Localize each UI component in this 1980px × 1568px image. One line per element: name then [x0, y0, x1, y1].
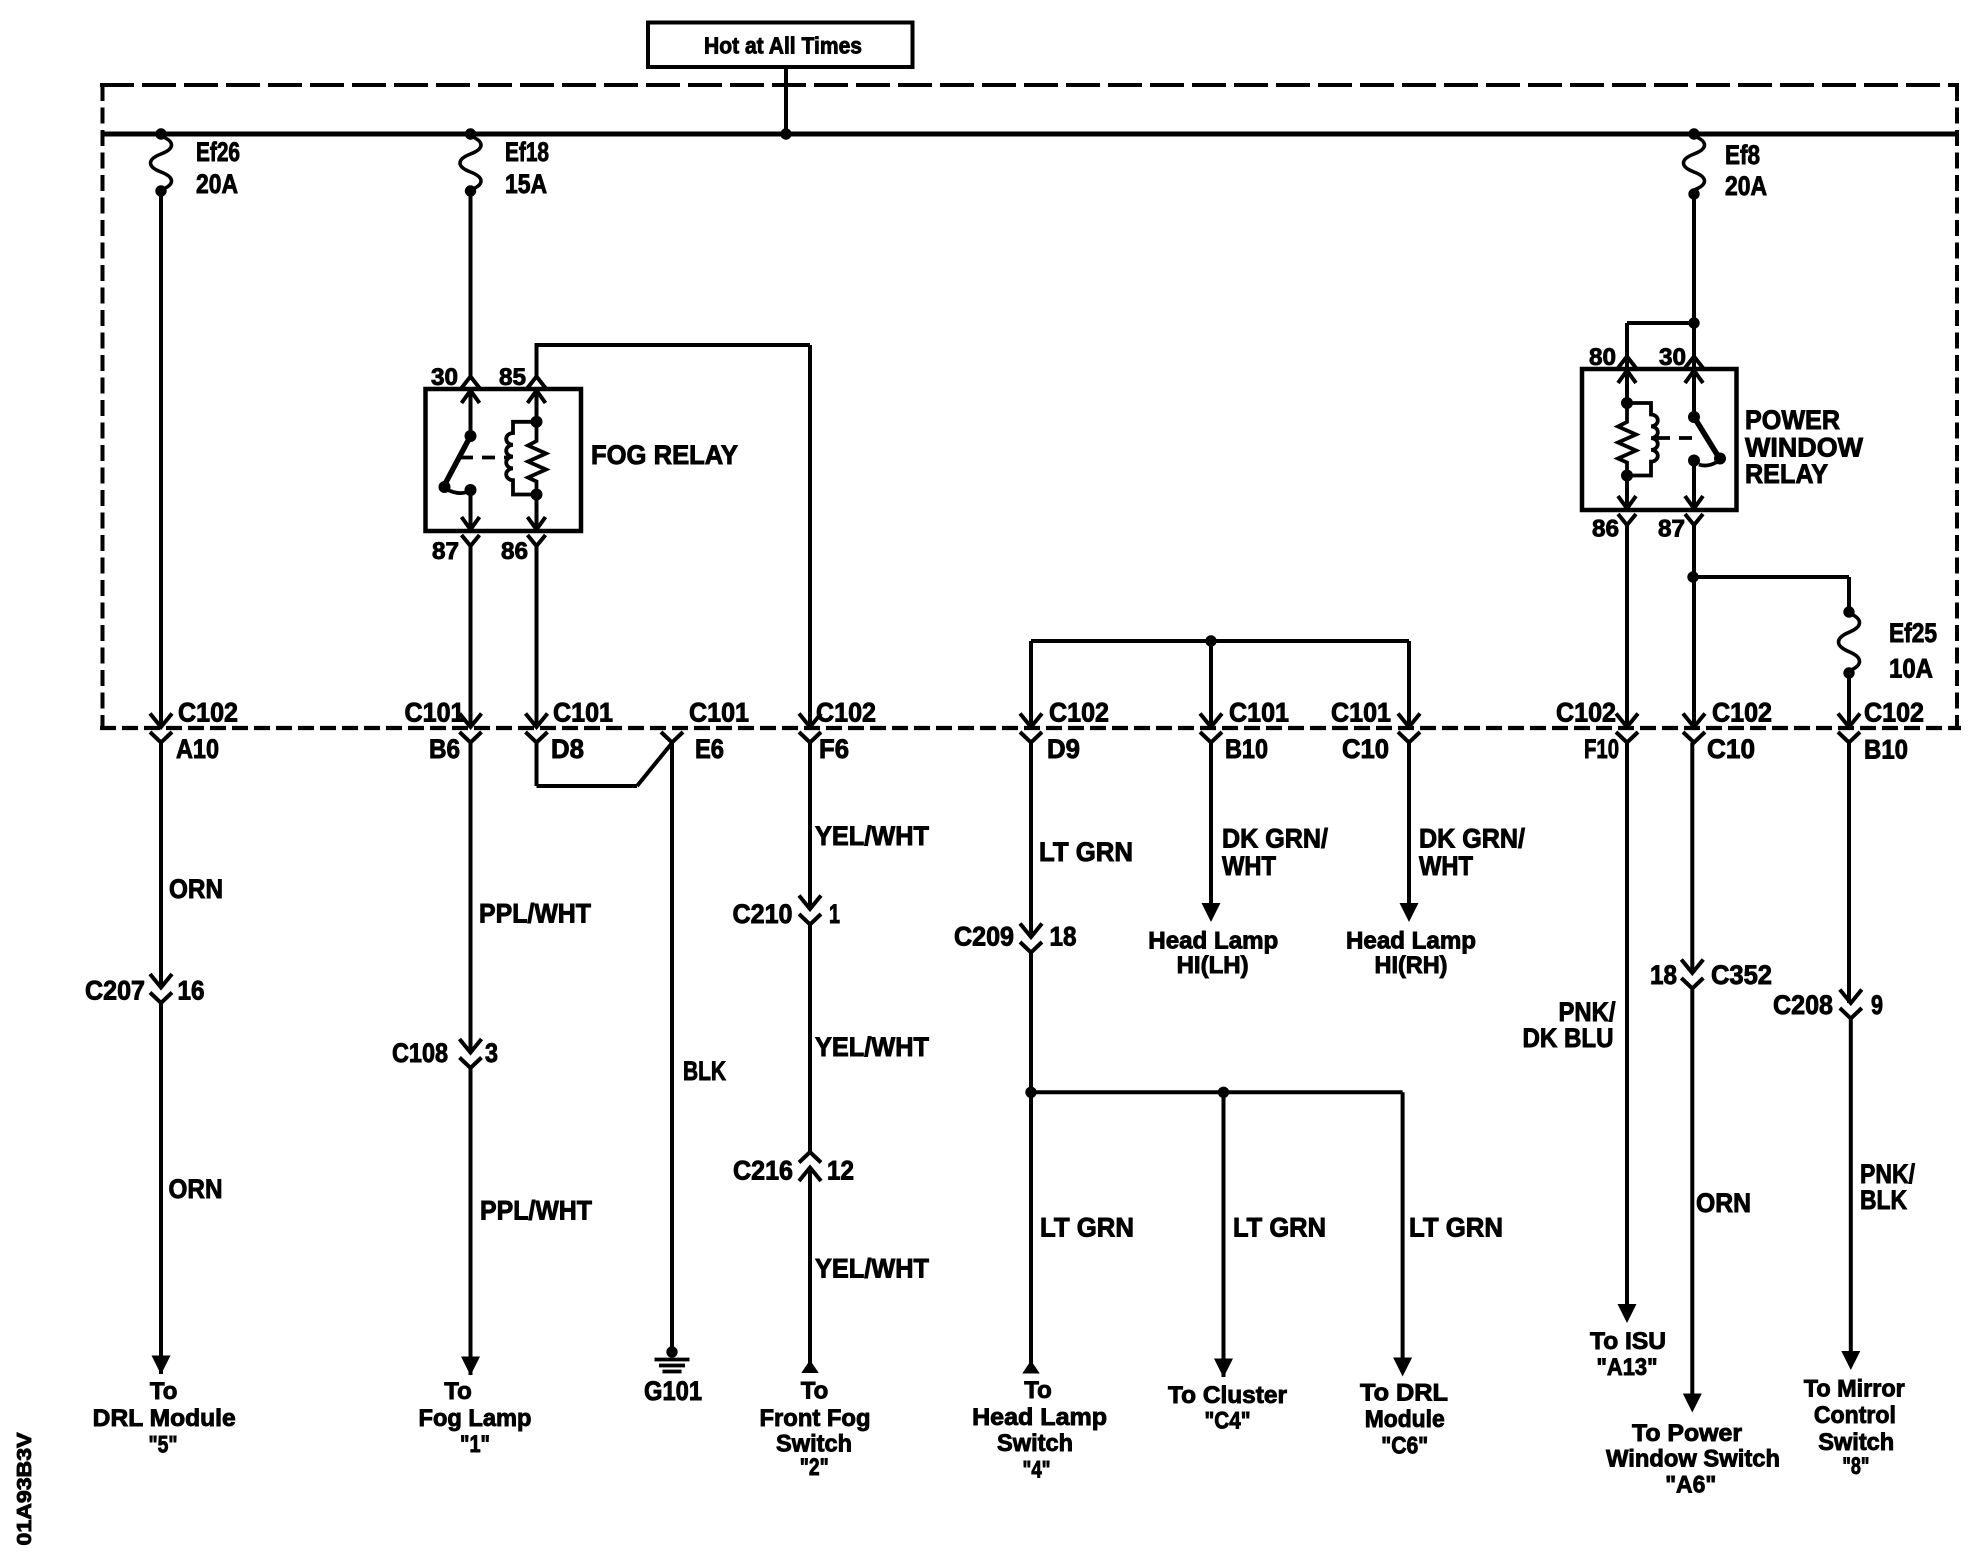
wire: YEL/WHT C216 to front fog switch	[810, 1167, 929, 1372]
svg-text:16: 16	[178, 976, 205, 1006]
fuse Ef26 20A	[151, 136, 241, 199]
svg-text:86: 86	[501, 538, 528, 565]
svg-text:Head Lamp: Head Lamp	[972, 1404, 1107, 1431]
svg-text:9: 9	[1871, 990, 1883, 1020]
wire: branch over to Ef25	[1693, 577, 1849, 611]
fog relay pin 85	[499, 364, 546, 403]
wire: DK GRN/WHT C10 to head lamp HI RH	[1409, 743, 1526, 905]
connector C101 pin B6	[405, 698, 482, 765]
arrow: to Cluster	[1214, 1359, 1233, 1378]
wire: PNK/BLK C208 to mirror control switch	[1849, 1019, 1853, 1353]
svg-text:30: 30	[431, 364, 458, 391]
svg-text:WINDOW: WINDOW	[1745, 433, 1863, 463]
svg-text:C101: C101	[1331, 698, 1391, 728]
wire: ORN from C207 to DRL module	[161, 1003, 223, 1374]
node: junction LT GRN at head lamp switch wire	[1025, 1087, 1036, 1098]
label: To Power Window Switch "A6"	[1606, 1420, 1780, 1499]
svg-text:12: 12	[827, 1156, 854, 1186]
svg-text:80: 80	[1589, 344, 1616, 371]
wire: Hot at All Times feed down to battery bus	[784, 67, 788, 134]
wire: branch over to pin 80	[1627, 323, 1694, 377]
svg-text:30: 30	[1659, 344, 1686, 371]
svg-text:DK GRN/: DK GRN/	[1222, 824, 1329, 854]
connector C102 pin D9	[1020, 698, 1109, 765]
label: To DRL Module "C6"	[1360, 1380, 1448, 1460]
svg-text:C101: C101	[689, 698, 749, 728]
svg-text:B10: B10	[1225, 734, 1268, 764]
underhood fuse block boundary (dashed box)	[100, 85, 1959, 728]
svg-text:To: To	[444, 1378, 472, 1405]
arrow: to Head Lamp HI (RH)	[1400, 903, 1419, 922]
node: junction Ef25 branch	[1687, 571, 1698, 582]
svg-text:Control: Control	[1814, 1402, 1896, 1429]
svg-text:YEL/WHT: YEL/WHT	[815, 1254, 929, 1284]
connector C102 pin F6	[799, 698, 876, 765]
svg-text:01A93B3V: 01A93B3V	[13, 1432, 36, 1545]
connector C208 pin 9	[1773, 990, 1883, 1021]
svg-text:D8: D8	[551, 734, 584, 764]
svg-text:C101: C101	[553, 698, 613, 728]
svg-text:"A6": "A6"	[1665, 1472, 1716, 1499]
svg-text:C208: C208	[1773, 990, 1833, 1020]
svg-text:C352: C352	[1711, 960, 1772, 990]
wire: relay 87 down to connector C102 C10	[1692, 525, 1696, 727]
svg-text:E6: E6	[695, 734, 724, 764]
wire: PNK/BLK B10 to C208	[1849, 743, 1916, 1216]
svg-text:Head Lamp: Head Lamp	[1148, 928, 1278, 955]
fog relay coil (85-86)	[506, 391, 546, 530]
connector C210 pin 1	[733, 896, 841, 930]
wire: relay 86 down to connector C102 F10	[1625, 525, 1629, 727]
svg-text:HI(RH): HI(RH)	[1375, 952, 1448, 979]
power window relay coil (80-86)	[1618, 371, 1658, 509]
svg-text:DRL Module: DRL Module	[93, 1405, 236, 1432]
power window relay box	[1582, 369, 1737, 510]
connector C102 pin C10	[1683, 698, 1772, 765]
power window relay switch 30-87	[1688, 371, 1726, 509]
svg-text:"A13": "A13"	[1597, 1354, 1658, 1381]
fuse Ef8 20A	[1684, 136, 1768, 201]
svg-text:"5": "5"	[149, 1431, 178, 1458]
node: junction at B10	[1205, 635, 1216, 646]
svg-text:3: 3	[485, 1038, 498, 1068]
arrow: to Power Window Switch	[1683, 1394, 1702, 1413]
svg-text:HI(LH): HI(LH)	[1177, 952, 1249, 979]
svg-text:15A: 15A	[505, 169, 547, 199]
svg-text:20A: 20A	[196, 169, 238, 199]
power window relay armature dashed link	[1657, 436, 1697, 440]
wire: PPL/WHT B6 to C108	[471, 743, 592, 1054]
fog relay switch 30-87	[439, 391, 477, 530]
fuse Ef18 15A	[460, 136, 549, 199]
wire: LT GRN C209 down to junction	[1031, 953, 1134, 1243]
svg-text:1: 1	[829, 899, 840, 929]
label: To Front Fog Switch "2"	[760, 1378, 871, 1482]
svg-text:G101: G101	[644, 1376, 702, 1406]
svg-text:C10: C10	[1707, 734, 1755, 764]
wire: ORN C10 to C352	[1690, 743, 1694, 974]
svg-text:86: 86	[1592, 516, 1619, 543]
svg-text:B6: B6	[429, 734, 460, 764]
svg-text:C102: C102	[178, 698, 238, 728]
svg-text:"C6": "C6"	[1381, 1433, 1428, 1460]
svg-text:C216: C216	[733, 1156, 793, 1186]
wire: jumper D8 to E6	[537, 743, 673, 787]
svg-text:To Mirror: To Mirror	[1804, 1376, 1905, 1403]
power source box "Hot at All Times"	[648, 23, 913, 68]
node: junction pin 80 branch	[1688, 317, 1699, 328]
svg-text:To Power: To Power	[1632, 1420, 1742, 1447]
wire: fog relay pin 85 loop over to F6	[535, 345, 811, 727]
wire: DK GRN/WHT B10 to head lamp HI LH	[1211, 743, 1329, 905]
label: To Fog Lamp "1"	[419, 1378, 532, 1458]
svg-text:B10: B10	[1864, 735, 1908, 765]
svg-text:BLK: BLK	[683, 1056, 726, 1086]
svg-text:C102: C102	[1712, 698, 1772, 728]
ground G101	[644, 1346, 702, 1406]
svg-text:Module: Module	[1365, 1406, 1445, 1433]
svg-text:C102: C102	[1556, 698, 1616, 728]
svg-text:C210: C210	[733, 899, 793, 929]
svg-text:C102: C102	[816, 698, 876, 728]
svg-text:YEL/WHT: YEL/WHT	[815, 821, 929, 851]
svg-text:C10: C10	[1342, 734, 1389, 764]
svg-text:"C4": "C4"	[1205, 1408, 1251, 1435]
svg-text:LT GRN: LT GRN	[1039, 837, 1133, 867]
connector C101 pin C10	[1331, 698, 1420, 765]
wire: Ef8 down to junction	[1692, 194, 1696, 323]
label: To Head Lamp Switch "4"	[972, 1377, 1107, 1484]
svg-text:10A: 10A	[1889, 654, 1933, 684]
arrow: to Head Lamp HI (LH)	[1202, 903, 1221, 922]
arrow: to ISU	[1618, 1304, 1637, 1323]
wire: headlamp HI feed bus	[1031, 641, 1409, 727]
power window relay pin 87	[1658, 496, 1703, 543]
svg-text:RELAY: RELAY	[1745, 459, 1828, 489]
connector C102 pin A10	[150, 698, 238, 765]
connector C108 pin 3	[392, 1038, 498, 1068]
svg-text:18: 18	[1050, 922, 1077, 952]
svg-text:C108: C108	[392, 1038, 448, 1068]
wire: Ef26 down to connector C102 A10	[159, 191, 163, 727]
connector C352 pin 18	[1650, 960, 1772, 991]
svg-text:"2": "2"	[800, 1454, 829, 1481]
svg-text:"1": "1"	[460, 1431, 490, 1458]
svg-text:C207: C207	[85, 976, 145, 1006]
label: To Cluster "C4"	[1168, 1382, 1287, 1435]
svg-text:ORN: ORN	[1696, 1188, 1751, 1218]
label: Head Lamp HI(RH)	[1346, 928, 1476, 980]
connector C207 pin 16	[85, 974, 205, 1006]
label: Head Lamp HI(LH)	[1148, 928, 1278, 980]
svg-text:LT GRN: LT GRN	[1233, 1213, 1326, 1243]
svg-text:BLK: BLK	[1860, 1185, 1907, 1215]
svg-text:PPL/WHT: PPL/WHT	[480, 1196, 592, 1226]
svg-text:F6: F6	[819, 734, 849, 764]
connector C102 pin F10	[1556, 698, 1638, 765]
wire: YEL/WHT C210 to C216	[810, 925, 929, 1153]
wire: battery feed bus	[103, 132, 1958, 137]
svg-text:YEL/WHT: YEL/WHT	[815, 1032, 929, 1062]
wire: PPL/WHT C108 to fog lamp	[471, 1068, 593, 1375]
label: To Mirror Control Switch "8"	[1804, 1376, 1905, 1481]
svg-text:Head Lamp: Head Lamp	[1346, 928, 1476, 955]
wire: Ef18 down to fog relay pin 30	[469, 191, 473, 377]
node: bus junction at Ef8	[1688, 128, 1699, 139]
svg-text:F10: F10	[1584, 734, 1619, 764]
wire: BLK from E6 to ground	[672, 743, 726, 1352]
connector C101 pin D8	[526, 698, 614, 765]
wire: PNK/DK BLU F10 to ISU	[1523, 743, 1628, 1306]
connector C102 pin B10	[1838, 698, 1924, 765]
label: POWER WINDOW RELAY	[1745, 405, 1863, 489]
svg-text:Hot at All Times: Hot at All Times	[704, 33, 862, 59]
svg-text:To: To	[1024, 1377, 1052, 1404]
svg-text:PPL/WHT: PPL/WHT	[479, 899, 591, 929]
svg-text:C102: C102	[1864, 698, 1924, 728]
label: To ISU "A13"	[1590, 1328, 1666, 1381]
node: bus junction at Ef18	[465, 128, 476, 139]
fog relay pin 30	[431, 364, 480, 403]
fog relay pin 86	[501, 517, 546, 565]
fog relay pin 87	[432, 517, 480, 565]
wire: LT GRN branch bus	[1031, 1090, 1403, 1094]
svg-text:Front Fog: Front Fog	[760, 1405, 871, 1432]
svg-text:To ISU: To ISU	[1590, 1328, 1666, 1355]
svg-text:Ef18: Ef18	[505, 137, 549, 167]
wire: Ef25 down to connector C102 B10	[1847, 673, 1851, 727]
wire: LT GRN down to cluster	[1224, 1092, 1327, 1377]
arrow: to Fog Lamp	[461, 1357, 480, 1376]
svg-text:Window Switch: Window Switch	[1606, 1446, 1780, 1473]
svg-text:ORN: ORN	[169, 1174, 223, 1204]
svg-text:To DRL: To DRL	[1360, 1380, 1448, 1407]
svg-text:87: 87	[432, 538, 459, 565]
wire: LT GRN down to DRL module C6	[1403, 1092, 1503, 1360]
svg-text:Ef26: Ef26	[196, 137, 240, 167]
svg-text:FOG RELAY: FOG RELAY	[591, 440, 738, 470]
svg-text:LT GRN: LT GRN	[1040, 1213, 1134, 1243]
wire: fog relay 86 down to connector C101 D8	[535, 546, 539, 727]
power window relay pin 30	[1659, 344, 1703, 383]
wire: ORN from A10 to C207	[161, 743, 223, 988]
svg-text:87: 87	[1658, 516, 1685, 543]
fog relay armature dashed link	[460, 456, 507, 460]
label: To DRL Module "5"	[93, 1378, 236, 1458]
svg-text:C102: C102	[1049, 698, 1109, 728]
svg-text:WHT: WHT	[1222, 851, 1276, 881]
svg-text:"8": "8"	[1842, 1453, 1869, 1480]
arrow: from Head Lamp Switch	[1022, 1361, 1040, 1374]
svg-text:D9: D9	[1047, 734, 1080, 764]
svg-text:To: To	[801, 1378, 829, 1405]
svg-text:20A: 20A	[1725, 171, 1767, 201]
svg-text:A10: A10	[176, 734, 219, 764]
wire: junction down to pin 30	[1692, 323, 1696, 377]
svg-text:Ef8: Ef8	[1725, 140, 1760, 170]
power window relay pin 86	[1592, 496, 1636, 543]
fuse Ef25 10A	[1839, 606, 1938, 683]
connector C101 pin E6	[661, 698, 749, 765]
wire: ORN C352 to power window switch	[1692, 989, 1751, 1395]
svg-text:DK BLU: DK BLU	[1523, 1023, 1614, 1053]
node: bus junction at Ef26	[155, 128, 166, 139]
connector line (dashed)	[100, 726, 1961, 730]
node: bus junction hot feed	[780, 128, 791, 139]
arrow: to DRL Module	[152, 1356, 171, 1375]
svg-text:"4": "4"	[1023, 1457, 1051, 1484]
svg-text:Switch: Switch	[1818, 1429, 1894, 1456]
arrow: to Mirror Control Switch	[1841, 1351, 1860, 1370]
svg-text:To Cluster: To Cluster	[1168, 1382, 1287, 1409]
svg-text:WHT: WHT	[1419, 851, 1473, 881]
svg-text:ORN: ORN	[169, 874, 223, 904]
svg-text:To: To	[150, 1378, 178, 1405]
svg-text:C101: C101	[405, 698, 465, 728]
arrow: to DRL Module C6	[1393, 1358, 1412, 1377]
connector C101 pin B10	[1200, 698, 1289, 765]
svg-text:Ef25: Ef25	[1889, 618, 1937, 648]
svg-text:DK GRN/: DK GRN/	[1419, 824, 1526, 854]
power window relay pin 80	[1589, 344, 1636, 383]
arrow: from Front Fog Switch	[801, 1360, 819, 1373]
svg-text:Fog Lamp: Fog Lamp	[419, 1405, 532, 1432]
wire: LT GRN down to head lamp switch	[1029, 1092, 1033, 1372]
connector C216 pin 12	[733, 1152, 854, 1186]
wire: fog relay 87 down to connector C101 B6	[469, 546, 473, 727]
svg-text:C209: C209	[954, 922, 1014, 952]
wire: LT GRN D9 to C209	[1031, 743, 1133, 938]
svg-text:C101: C101	[1229, 698, 1289, 728]
wire: YEL/WHT F6 to C210	[810, 743, 929, 910]
node: junction LT GRN at cluster wire	[1218, 1087, 1229, 1098]
connector C209 pin 18	[954, 922, 1077, 953]
svg-text:Switch: Switch	[997, 1430, 1073, 1457]
svg-text:LT GRN: LT GRN	[1409, 1213, 1503, 1243]
fog relay box	[426, 389, 582, 531]
svg-text:POWER: POWER	[1745, 405, 1840, 435]
svg-text:85: 85	[499, 364, 526, 391]
svg-text:18: 18	[1650, 960, 1677, 990]
